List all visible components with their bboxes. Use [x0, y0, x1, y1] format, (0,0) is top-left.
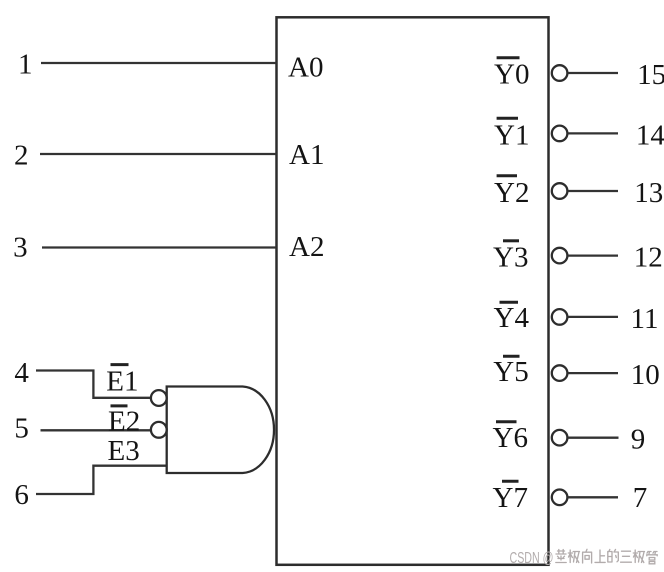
svg-text:Y3: Y3 [493, 242, 528, 274]
svg-text:11: 11 [631, 303, 659, 335]
node Y3 overbar [503, 239, 519, 242]
svg-text:Y2: Y2 [494, 177, 529, 209]
wire Y2 to pin 13 [567, 190, 618, 192]
svg-text:A0: A0 [288, 52, 323, 84]
wire pin1 to A0 [41, 62, 277, 64]
svg-text:Y0: Y0 [494, 59, 529, 91]
output bubble Y0 [552, 65, 568, 81]
node Y4 overbar [500, 301, 519, 304]
output bubble Y3 [552, 248, 568, 264]
wire pin6 to E3 input [36, 466, 167, 494]
svg-text:15: 15 [637, 59, 664, 91]
output bubble Y1 [552, 126, 568, 142]
wire Y5 to pin 10 [567, 372, 618, 374]
svg-text:Y6: Y6 [493, 422, 528, 454]
svg-text:9: 9 [631, 424, 646, 456]
inverting bubble E2 input [151, 422, 167, 438]
wire pin2 to A1 [40, 153, 277, 155]
svg-text:10: 10 [631, 359, 660, 391]
wire Y3 to pin 12 [567, 254, 618, 256]
output bubble Y2 [552, 183, 568, 199]
svg-text:1: 1 [18, 49, 33, 81]
wire Y6 to pin 9 [567, 437, 618, 439]
svg-text:5: 5 [14, 413, 29, 445]
svg-text:E2: E2 [108, 406, 140, 438]
inverting bubble E1 input [151, 390, 167, 406]
AND gate U2 [167, 387, 274, 474]
node Y1 overbar [497, 117, 518, 120]
wire pin5 to E2 bubble [41, 429, 151, 431]
svg-text:Y5: Y5 [493, 356, 528, 388]
node Y5 overbar [503, 355, 520, 358]
svg-text:7: 7 [633, 482, 648, 514]
wire pin4 to E1 bubble [36, 371, 151, 398]
node Y2 overbar [497, 174, 517, 177]
svg-text:E1: E1 [106, 365, 138, 397]
output bubble Y7 [552, 490, 568, 506]
wire pin3 to A2 [42, 246, 277, 248]
svg-text:E3: E3 [108, 435, 140, 467]
node Y7 overbar [502, 480, 519, 483]
svg-text:4: 4 [14, 357, 29, 389]
svg-text:Y7: Y7 [493, 482, 528, 514]
output bubble Y5 [552, 365, 568, 381]
svg-text:A2: A2 [289, 231, 324, 263]
node Y6 overbar [496, 420, 517, 423]
svg-text:A1: A1 [289, 139, 324, 171]
wire Y4 to pin 11 [567, 316, 618, 318]
svg-text:13: 13 [634, 177, 663, 209]
node E2 overbar [111, 404, 128, 407]
wire Y7 to pin 7 [567, 496, 618, 498]
svg-text:3: 3 [13, 231, 28, 263]
svg-text:CSDN @: CSDN @ [510, 550, 554, 567]
svg-text:2: 2 [14, 140, 29, 172]
node E1 overbar [111, 363, 129, 366]
watermark [510, 549, 658, 567]
svg-text:Y4: Y4 [494, 302, 530, 334]
svg-text:Y1: Y1 [494, 120, 529, 152]
wire Y1 to pin 14 [567, 132, 618, 134]
output bubble Y6 [552, 430, 568, 446]
svg-text:6: 6 [14, 479, 29, 511]
output bubble Y4 [552, 309, 568, 325]
decoder U1 body [277, 17, 549, 565]
node Y0 overbar [497, 56, 520, 59]
svg-text:14: 14 [636, 119, 664, 151]
wire Y0 to pin 15 [567, 72, 618, 74]
svg-text:12: 12 [634, 242, 663, 274]
